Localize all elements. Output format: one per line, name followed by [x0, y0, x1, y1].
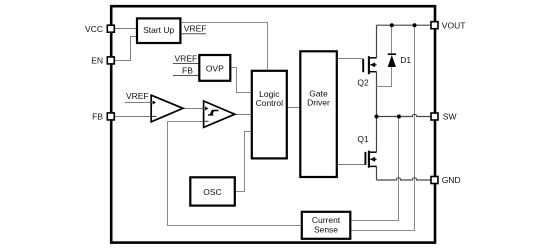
wire Q2 source to SW rail: [376, 72, 378, 117]
wire EN pin to Start Up: [114, 37, 137, 61]
svg-text:SW: SW: [443, 112, 457, 122]
comparator PWM with hysteresis: [204, 101, 235, 127]
wire current sense tap from VOUT rail: [350, 25, 414, 230]
wire Q2 drain to VOUT rail: [376, 25, 378, 58]
block OVP: [199, 55, 230, 81]
diode D1 symbol: [388, 53, 396, 55]
comparator - input stub: [204, 120, 209, 122]
pin VOUT: [431, 22, 438, 29]
svg-text:FB: FB: [182, 66, 193, 76]
svg-text:VOUT: VOUT: [442, 20, 466, 30]
IC outer boundary box: [111, 6, 435, 242]
diode D1 anode wire to SW vertical: [377, 67, 392, 87]
transistor Q2 high-side MOSFET: [363, 56, 376, 74]
op-amp error amplifier: [151, 95, 183, 122]
svg-text:VREF: VREF: [126, 91, 149, 101]
transistor Q1 low-side MOSFET: [365, 151, 376, 168]
wire Q1 source to GND rail: [376, 166, 378, 180]
svg-text:Start Up: Start Up: [143, 25, 174, 35]
block OSC oscillator: [190, 177, 235, 205]
svg-text:VCC: VCC: [85, 24, 103, 34]
block Gate Driver: [300, 51, 337, 177]
svg-text:VREF: VREF: [175, 53, 198, 63]
wire VCC pin to Start Up: [114, 28, 137, 30]
wire current sense feedback to comparator - input: [168, 122, 302, 226]
junction dot SW / phase node: [375, 115, 379, 119]
junction dot top rail / sense line: [413, 23, 417, 27]
pin GND: [431, 177, 438, 184]
wire current sense tap from SW node: [350, 117, 398, 221]
svg-text:VREF: VREF: [184, 23, 207, 33]
diode D1 cathode wire from VOUT rail: [391, 25, 393, 54]
wire FB pin to error amp - input: [114, 116, 152, 118]
svg-text:OSC: OSC: [203, 187, 221, 197]
junction dot top rail / D1: [390, 23, 394, 27]
block Current Sense: [302, 212, 351, 239]
comparator + input arrow: [204, 108, 206, 110]
pin SW: [431, 113, 438, 120]
wire GND rail with hops: [377, 178, 432, 180]
block Logic Control: [252, 71, 287, 159]
svg-text:D1: D1: [400, 55, 411, 65]
wire Logic Control to Gate Driver: [287, 107, 301, 109]
error amp - input stub: [151, 115, 156, 117]
wire Q1 drain to SW rail: [376, 117, 378, 153]
wire VREF into error amp + input: [125, 102, 152, 104]
pin VCC: [107, 25, 114, 32]
junction dot SW / sense line: [397, 115, 401, 119]
wire VOUT top rail: [377, 24, 432, 26]
wire Gate Driver to Q2 gate: [337, 58, 363, 60]
block Start Up: [137, 18, 180, 43]
svg-text:Sense: Sense: [314, 225, 338, 235]
wire error amp output to comparator: [183, 108, 205, 110]
wire VREF stub into OVP: [173, 63, 200, 65]
svg-text:EN: EN: [91, 56, 103, 66]
svg-text:Control: Control: [256, 98, 284, 108]
svg-text:Driver: Driver: [307, 98, 330, 108]
wire OVP output to Logic Control: [230, 68, 252, 93]
hysteresis symbol: [208, 111, 219, 115]
svg-text:Q2: Q2: [357, 78, 369, 88]
svg-text:Q1: Q1: [357, 134, 369, 144]
svg-text:FB: FB: [92, 112, 103, 122]
wire OSC output to Logic Control: [235, 132, 252, 192]
wire comparator output to Logic Control: [235, 114, 252, 116]
pin EN: [107, 57, 114, 64]
error amp + input arrow: [151, 102, 153, 104]
svg-text:GND: GND: [442, 175, 461, 185]
wire SW rail with hop over sense line: [377, 114, 432, 116]
wire Gate Driver to Q1 gate: [337, 164, 365, 166]
wire VREF rail from Start Up to Logic Control top: [180, 23, 267, 71]
svg-text:OVP: OVP: [206, 64, 224, 74]
pin FB: [107, 113, 114, 120]
wire FB stub into OVP: [173, 75, 199, 77]
